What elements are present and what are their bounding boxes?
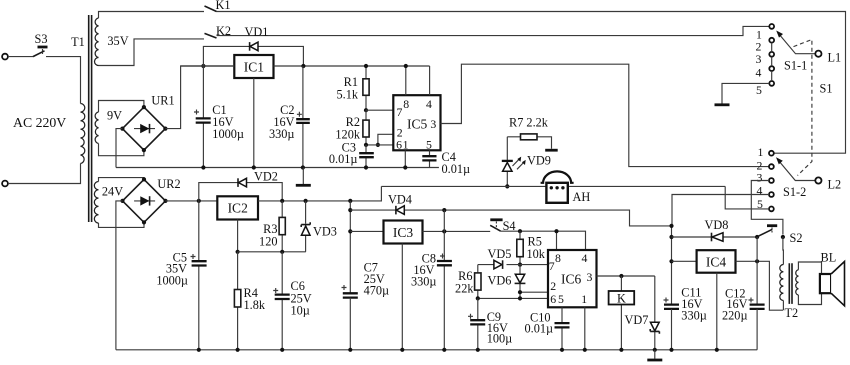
- wire S3 to T1 primary: [46, 57, 81, 104]
- T1 secondary 9V winding: [95, 112, 98, 144]
- lamp terminal L1: [815, 51, 821, 57]
- wire IC5 pin 1: [404, 150, 406, 167]
- svg-text:8: 8: [555, 251, 561, 265]
- wire UR1 minus to ground rail: [116, 129, 122, 168]
- capacitor C1: [194, 66, 244, 170]
- node C1 top: [201, 64, 205, 68]
- svg-text:3: 3: [756, 52, 762, 66]
- wiper S1-2: [776, 157, 815, 199]
- svg-text:4: 4: [582, 251, 588, 265]
- capacitor C6: [273, 252, 312, 352]
- resistor R6: [455, 265, 481, 299]
- ground rail upper section: [116, 167, 439, 169]
- wire IC2 ground lead: [237, 220, 239, 252]
- svg-text:4: 4: [756, 65, 762, 79]
- resistor R5: [517, 231, 546, 264]
- svg-text:IC3: IC3: [393, 225, 414, 240]
- wire pin 7: [366, 109, 393, 111]
- rotary switch S1-2 contact 3: [769, 178, 774, 183]
- wire 24V bottom to UR2: [99, 222, 145, 227]
- wire IC3 output to S4: [423, 230, 491, 232]
- wire bottom terminal to primary: [8, 164, 81, 184]
- relay contact K2: [205, 24, 232, 38]
- wire T2 primary bottom: [782, 301, 784, 311]
- wire S4 to IC6 pins 8/4: [501, 231, 586, 250]
- wire IC1 input left segment: [181, 65, 235, 67]
- wire IC6 pin 8 top: [556, 231, 558, 250]
- wire 9V bottom to UR1: [99, 144, 144, 156]
- wire IC6 pin 3 output line: [597, 275, 655, 277]
- svg-text:K: K: [617, 291, 626, 305]
- node R1 bottom / pin7: [364, 108, 368, 112]
- rotary switch S1-2 contact 4: [769, 192, 774, 197]
- svg-text:BL: BL: [821, 250, 837, 264]
- ground symbol S1-1: [715, 103, 730, 106]
- lamp terminal L2: [815, 177, 821, 183]
- rotary switch S1-1 contact 1: [769, 24, 774, 29]
- loudspeaker BL: [820, 250, 845, 306]
- svg-text:470µ: 470µ: [364, 283, 390, 297]
- zener diode VD7: [625, 276, 660, 352]
- wire IC5 pin 8 top: [405, 66, 407, 95]
- wire pin 2 line: [520, 291, 548, 293]
- svg-text:6: 6: [550, 292, 556, 306]
- svg-text:AH: AH: [573, 190, 591, 204]
- wire UR2 minus to bottom rail: [116, 201, 123, 350]
- svg-text:VD7: VD7: [625, 313, 649, 327]
- diode VD1 across IC1: [203, 25, 303, 66]
- node C5 / VD2 left: [197, 199, 201, 203]
- svg-text:1.8k: 1.8k: [244, 298, 266, 312]
- wire pin 6 line: [478, 297, 548, 299]
- svg-text:S2: S2: [790, 231, 803, 245]
- rotary switch S1-2 contact 1: [769, 151, 774, 156]
- svg-text:10k: 10k: [527, 247, 546, 261]
- node C8 tie: [442, 208, 446, 212]
- wire S1-1 contact 5 to ground: [722, 83, 769, 103]
- svg-text:8: 8: [403, 97, 409, 111]
- resistor R1: [336, 64, 369, 110]
- regulator IC1: [234, 55, 273, 78]
- rotary switch S1-2 contact 5: [769, 207, 774, 212]
- pushbutton S4: [490, 219, 515, 233]
- wire IC2 output line: [258, 186, 381, 201]
- svg-text:S1: S1: [820, 82, 833, 96]
- timer IC6: [548, 250, 597, 307]
- capacitor C4: [422, 150, 470, 176]
- capacitor C12: [722, 286, 765, 350]
- capacitor C10: [525, 307, 570, 352]
- ground symbol at R7: [545, 149, 558, 152]
- wire IC5 pin 3 to S1-2 contact 2: [441, 64, 770, 166]
- wire S1-2 contact 4 down to VD8 node: [672, 195, 769, 226]
- capacitor C11: [664, 285, 707, 352]
- svg-text:L1: L1: [828, 51, 842, 65]
- wire IC1 output line: [274, 65, 430, 67]
- svg-text:IC2: IC2: [228, 201, 248, 216]
- resistor R4: [234, 252, 265, 352]
- svg-text:120k: 120k: [335, 127, 360, 141]
- wire pin 2: [378, 134, 393, 145]
- wire S1-2 contact 3 to S2: [751, 181, 783, 235]
- wire IC4 output to T2 primary bottom: [736, 261, 784, 310]
- svg-text:4: 4: [426, 97, 432, 111]
- resistor R2: [335, 110, 369, 145]
- svg-text:24V: 24V: [102, 185, 123, 199]
- wire S2 left contact down to C12: [756, 237, 758, 305]
- wire IC6 pin 1: [584, 307, 586, 350]
- regulator IC3: [350, 221, 422, 352]
- vertical chain x=671.5: [671, 226, 673, 305]
- svg-text:VD3: VD3: [313, 224, 337, 238]
- capacitor C3: [329, 140, 374, 169]
- zener diode VD3: [301, 201, 337, 252]
- svg-text:0.01µ: 0.01µ: [329, 152, 358, 166]
- diode VD6: [488, 265, 526, 299]
- capacitor C7: [342, 260, 390, 352]
- svg-text:IC1: IC1: [244, 59, 264, 74]
- svg-text:5: 5: [426, 138, 432, 152]
- svg-text:UR1: UR1: [151, 94, 174, 108]
- svg-text:S3: S3: [35, 32, 48, 46]
- regulator IC2: [217, 196, 258, 219]
- wire S2 right contact to T2 primary top: [782, 237, 785, 265]
- dashed link S1: [794, 40, 833, 176]
- wire 35V bottom to K2: [99, 39, 205, 66]
- wire AH line: [381, 185, 725, 187]
- capacitor C9: [468, 298, 512, 352]
- timer IC5: [393, 95, 440, 151]
- T1 secondary 24V winding: [94, 182, 98, 224]
- transformer T1 core: [89, 15, 92, 222]
- svg-text:S1-2: S1-2: [783, 185, 806, 199]
- svg-text:35V: 35V: [107, 34, 128, 48]
- wire UR1 plus to IC1 input: [165, 66, 234, 129]
- capacitor C2: [269, 64, 310, 170]
- svg-text:S1-1: S1-1: [784, 59, 807, 73]
- LED VD9: [502, 137, 551, 187]
- svg-text:VD2: VD2: [254, 169, 278, 183]
- svg-text:IC6: IC6: [561, 271, 582, 286]
- pushbutton S2: [755, 226, 803, 245]
- rotary switch S1-1 contact 3: [769, 52, 774, 57]
- svg-text:330µ: 330µ: [681, 308, 707, 322]
- wire 24V top to UR2: [99, 178, 145, 182]
- svg-text:T1: T1: [71, 35, 85, 49]
- ground symbol bottom rail: [647, 350, 662, 360]
- wire IC2 gnd to R3 bottom / VD3: [238, 251, 306, 253]
- svg-text:VD1: VD1: [245, 25, 269, 39]
- svg-text:7: 7: [397, 105, 403, 119]
- wire IC5 pin 4 top: [429, 66, 431, 95]
- svg-text:1000µ: 1000µ: [156, 273, 188, 287]
- svg-text:120: 120: [259, 234, 277, 248]
- bell AH: [541, 171, 591, 203]
- svg-text:1: 1: [581, 292, 587, 306]
- diode VD8: [672, 218, 758, 241]
- svg-text:R7 2.2k: R7 2.2k: [509, 116, 549, 130]
- resistor R7: [507, 116, 551, 149]
- wiper S1-1: [776, 31, 815, 73]
- transformer T2 core: [789, 263, 792, 304]
- svg-text:7: 7: [549, 259, 555, 273]
- svg-text:330µ: 330µ: [269, 127, 295, 141]
- svg-text:K1: K1: [215, 0, 230, 12]
- svg-text:VD5: VD5: [488, 247, 512, 261]
- svg-text:VD6: VD6: [488, 273, 512, 287]
- svg-text:5: 5: [756, 83, 762, 97]
- svg-text:4: 4: [757, 184, 763, 198]
- wire 9V top to UR1: [99, 101, 144, 113]
- input terminal top: [2, 54, 8, 60]
- svg-text:VD9: VD9: [527, 154, 551, 168]
- svg-text:L2: L2: [828, 178, 842, 192]
- T1 secondary 35V winding: [95, 18, 99, 66]
- svg-text:VD8: VD8: [705, 218, 729, 232]
- wire K2 to S1-1 contact 1: [217, 26, 770, 35]
- transformer T1 primary winding: [81, 104, 85, 164]
- spine node and vertical at x=350: [348, 199, 352, 203]
- wire 35V top to K1: [99, 12, 205, 19]
- regulator IC4: [672, 250, 736, 352]
- svg-text:22k: 22k: [455, 281, 474, 295]
- ticks joining S1-1 contacts 2-5: [771, 43, 773, 81]
- diode VD4: [350, 192, 671, 226]
- resistor R3: [259, 201, 285, 254]
- svg-text:3: 3: [587, 270, 593, 284]
- rotary switch S1-1 contact 5: [769, 81, 774, 86]
- wire T2 secondary to speaker: [798, 262, 821, 305]
- transformer T2 secondary winding: [796, 270, 799, 295]
- node VD5/R5/pin7: [518, 263, 522, 267]
- bottom ground rail: [116, 349, 757, 351]
- svg-text:0.01µ: 0.01µ: [525, 321, 554, 335]
- svg-text:1000µ: 1000µ: [212, 127, 244, 141]
- wire S1-2 contact 5 to AH line: [725, 186, 769, 209]
- svg-text:1: 1: [758, 145, 764, 159]
- svg-text:3: 3: [757, 170, 763, 184]
- rotary switch S1-1 contact 2: [769, 38, 774, 43]
- svg-text:3: 3: [430, 117, 436, 131]
- ground symbol main rail: [296, 168, 311, 186]
- wire K1 to right edge down to S1-2 contact 1: [217, 12, 846, 154]
- wire pin 7 line: [507, 264, 549, 266]
- svg-text:1: 1: [403, 138, 409, 152]
- wire IC1 ground lead: [253, 78, 255, 168]
- svg-text:2: 2: [550, 279, 556, 293]
- relay coil K: [609, 276, 635, 352]
- svg-text:IC5: IC5: [407, 116, 428, 131]
- svg-text:VD4: VD4: [388, 192, 412, 206]
- capacitor C8: [411, 210, 452, 352]
- input terminal bottom: [2, 181, 8, 187]
- svg-text:UR2: UR2: [157, 177, 180, 191]
- switch S3: [33, 32, 48, 57]
- wire pin 6: [366, 144, 393, 146]
- svg-text:AC 220V: AC 220V: [13, 115, 66, 130]
- svg-text:10µ: 10µ: [291, 304, 310, 318]
- svg-text:100µ: 100µ: [487, 331, 513, 345]
- svg-text:220µ: 220µ: [722, 308, 748, 322]
- svg-text:0.01µ: 0.01µ: [442, 162, 471, 176]
- transformer T2 primary winding: [780, 265, 784, 301]
- rotary switch S1-1 contact 4: [769, 66, 774, 71]
- svg-text:5: 5: [558, 292, 564, 306]
- diode VD2 across IC2: [199, 169, 282, 201]
- wire terminal to S3: [8, 56, 33, 58]
- svg-text:6: 6: [396, 138, 402, 152]
- diode VD5: [478, 247, 512, 269]
- rotary switch S1-2 contact 2: [769, 164, 774, 169]
- svg-text:9V: 9V: [107, 109, 122, 123]
- svg-text:330µ: 330µ: [411, 274, 437, 288]
- svg-text:IC4: IC4: [706, 254, 727, 269]
- svg-text:5.1k: 5.1k: [336, 88, 358, 102]
- svg-text:T2: T2: [785, 306, 799, 320]
- wire UR2 plus to IC2: [166, 200, 218, 202]
- capacitor C5: [156, 201, 206, 352]
- bridge rectifier UR2: [120, 177, 180, 224]
- relay contact K1: [205, 0, 231, 12]
- bridge rectifier UR1: [120, 94, 174, 153]
